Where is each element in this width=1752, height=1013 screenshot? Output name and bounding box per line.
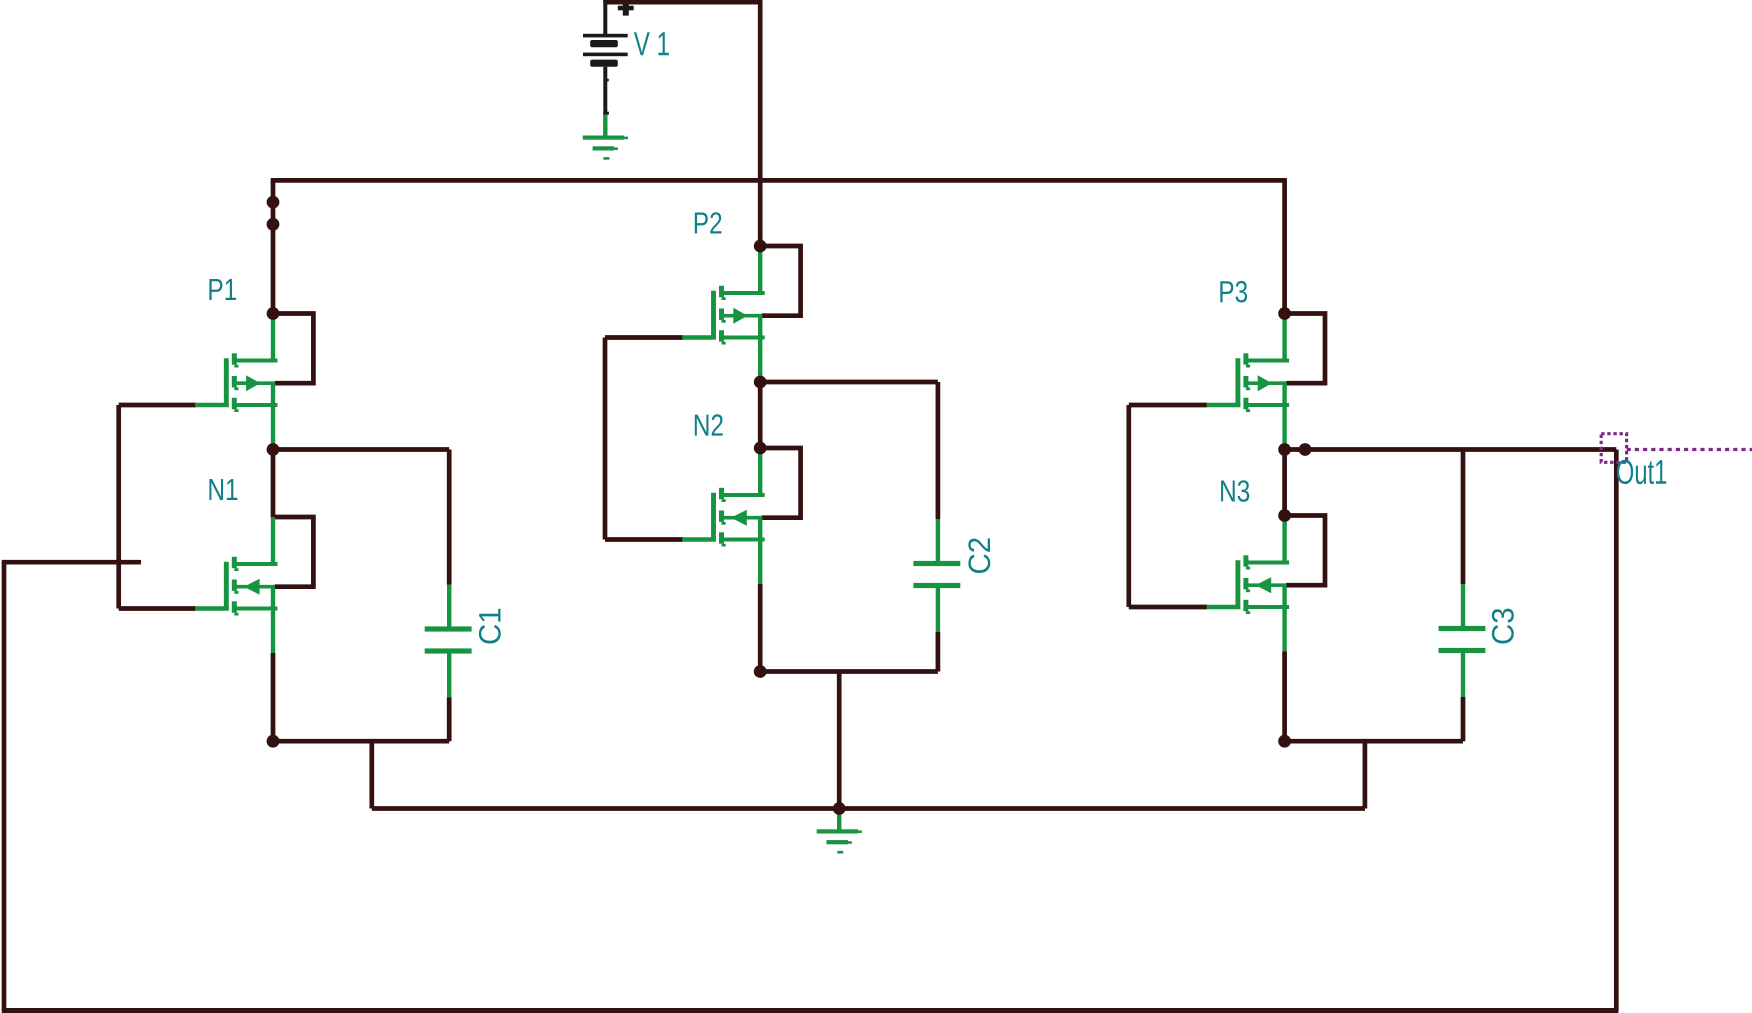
node stage3 out B bbox=[1299, 443, 1312, 456]
wire stage2 out to N2 drain bbox=[758, 382, 763, 448]
wire stage1 output horizontal bbox=[273, 447, 449, 452]
node stage2 out bbox=[754, 376, 767, 389]
label Out1 bbox=[1617, 460, 1666, 484]
node vdd-a bbox=[267, 196, 280, 209]
wire battery top to VDD drop bbox=[603, 0, 762, 5]
wire VDD drop to P2 source bbox=[758, 2, 763, 246]
wire feedback right vertical bbox=[1614, 450, 1619, 1011]
label C3 bbox=[1492, 609, 1514, 644]
wire stage3 output horizontal bbox=[1285, 447, 1617, 452]
label N3 bbox=[1221, 480, 1249, 502]
node N3 drain bbox=[1278, 509, 1291, 522]
node N1 source bbox=[267, 735, 280, 748]
battery V1 bbox=[583, 1, 628, 115]
label P2 bbox=[695, 212, 722, 233]
node stage3 out A bbox=[1278, 443, 1291, 456]
node ground node bbox=[833, 802, 846, 815]
wire N2 source lead bbox=[758, 584, 763, 672]
wire feedback left vertical bbox=[2, 562, 7, 1010]
capacitor C3 bbox=[1439, 584, 1486, 697]
wire VDD rail bbox=[271, 178, 1287, 183]
wire N3 gate horizontal bbox=[1129, 605, 1207, 610]
node P2 source bbox=[754, 240, 767, 253]
wire feedback bottom horizontal bbox=[2, 1008, 1619, 1013]
node N3 source bbox=[1278, 735, 1291, 748]
wire C3 top lead bbox=[1461, 450, 1466, 585]
battery plus sign bbox=[618, 4, 634, 15]
wire N2 source horizontal bbox=[760, 669, 938, 674]
wire ground rail bbox=[372, 806, 1365, 811]
wire P3 gate horizontal bbox=[1129, 403, 1207, 408]
ground GND bbox=[817, 809, 862, 854]
wire stage3 drop to ground rail bbox=[1363, 741, 1368, 808]
wire C2 top lead bbox=[936, 382, 941, 519]
wire N3 source lead bbox=[1282, 652, 1287, 742]
wire stage1 gate vertical bbox=[116, 405, 121, 609]
transistor P1 bbox=[195, 314, 313, 450]
wire feedback to stage1 gate bbox=[2, 560, 141, 565]
wire stage2 drop to ground bbox=[837, 672, 842, 809]
node P1 source bbox=[267, 307, 280, 320]
label P1 bbox=[209, 279, 236, 300]
label C2 bbox=[968, 538, 990, 573]
node N2 drain bbox=[754, 442, 767, 455]
node P3 source bbox=[1278, 307, 1291, 320]
wire stage1 out to N1 drain bbox=[271, 450, 276, 518]
capacitor C2 bbox=[913, 519, 960, 632]
transistor P3 bbox=[1207, 314, 1325, 450]
wire VDD rail right drop to P3 bbox=[1282, 180, 1287, 313]
wire N1 gate horizontal bbox=[119, 606, 196, 611]
wire N2 gate horizontal bbox=[605, 537, 683, 542]
capacitor C1 bbox=[425, 585, 472, 698]
node vdd-b bbox=[267, 218, 280, 231]
wire C1 bottom lead bbox=[447, 697, 452, 742]
wire stage1 drop to ground rail bbox=[369, 741, 374, 808]
transistor N2 bbox=[682, 448, 800, 584]
port Out1 marker bbox=[1601, 434, 1626, 463]
label C1 bbox=[479, 609, 501, 644]
wire C2 bottom lead bbox=[936, 632, 941, 672]
transistor P2 bbox=[682, 246, 800, 382]
wire N1 source lead bbox=[271, 653, 276, 741]
transistor N3 bbox=[1207, 516, 1325, 652]
wire C3 bottom lead bbox=[1461, 697, 1466, 741]
wire stage2 gate vertical bbox=[603, 338, 608, 540]
wire VDD rail left drop to P1 bbox=[271, 180, 276, 313]
label N2 bbox=[695, 414, 723, 435]
ground battery ground bbox=[583, 115, 628, 160]
label N1 bbox=[209, 479, 237, 500]
wire stage2 output horizontal to C2 bbox=[760, 380, 938, 385]
wire C1 top lead bbox=[447, 450, 452, 585]
wire Out1 dotted line bbox=[1627, 448, 1752, 451]
wire P1 gate horizontal bbox=[119, 403, 196, 408]
wire stage3 out to N3 drain bbox=[1282, 450, 1287, 516]
wire N3 source horizontal bbox=[1285, 739, 1463, 744]
label P3 bbox=[1220, 281, 1247, 303]
wire stage3 gate vertical bbox=[1126, 405, 1131, 607]
wire P2 gate horizontal bbox=[605, 335, 683, 340]
transistor N1 bbox=[195, 517, 313, 653]
node N2 source bbox=[754, 665, 767, 678]
label V 1 bbox=[634, 32, 669, 55]
node stage1 out bbox=[267, 443, 280, 456]
wire N1 source horizontal bbox=[273, 739, 449, 744]
